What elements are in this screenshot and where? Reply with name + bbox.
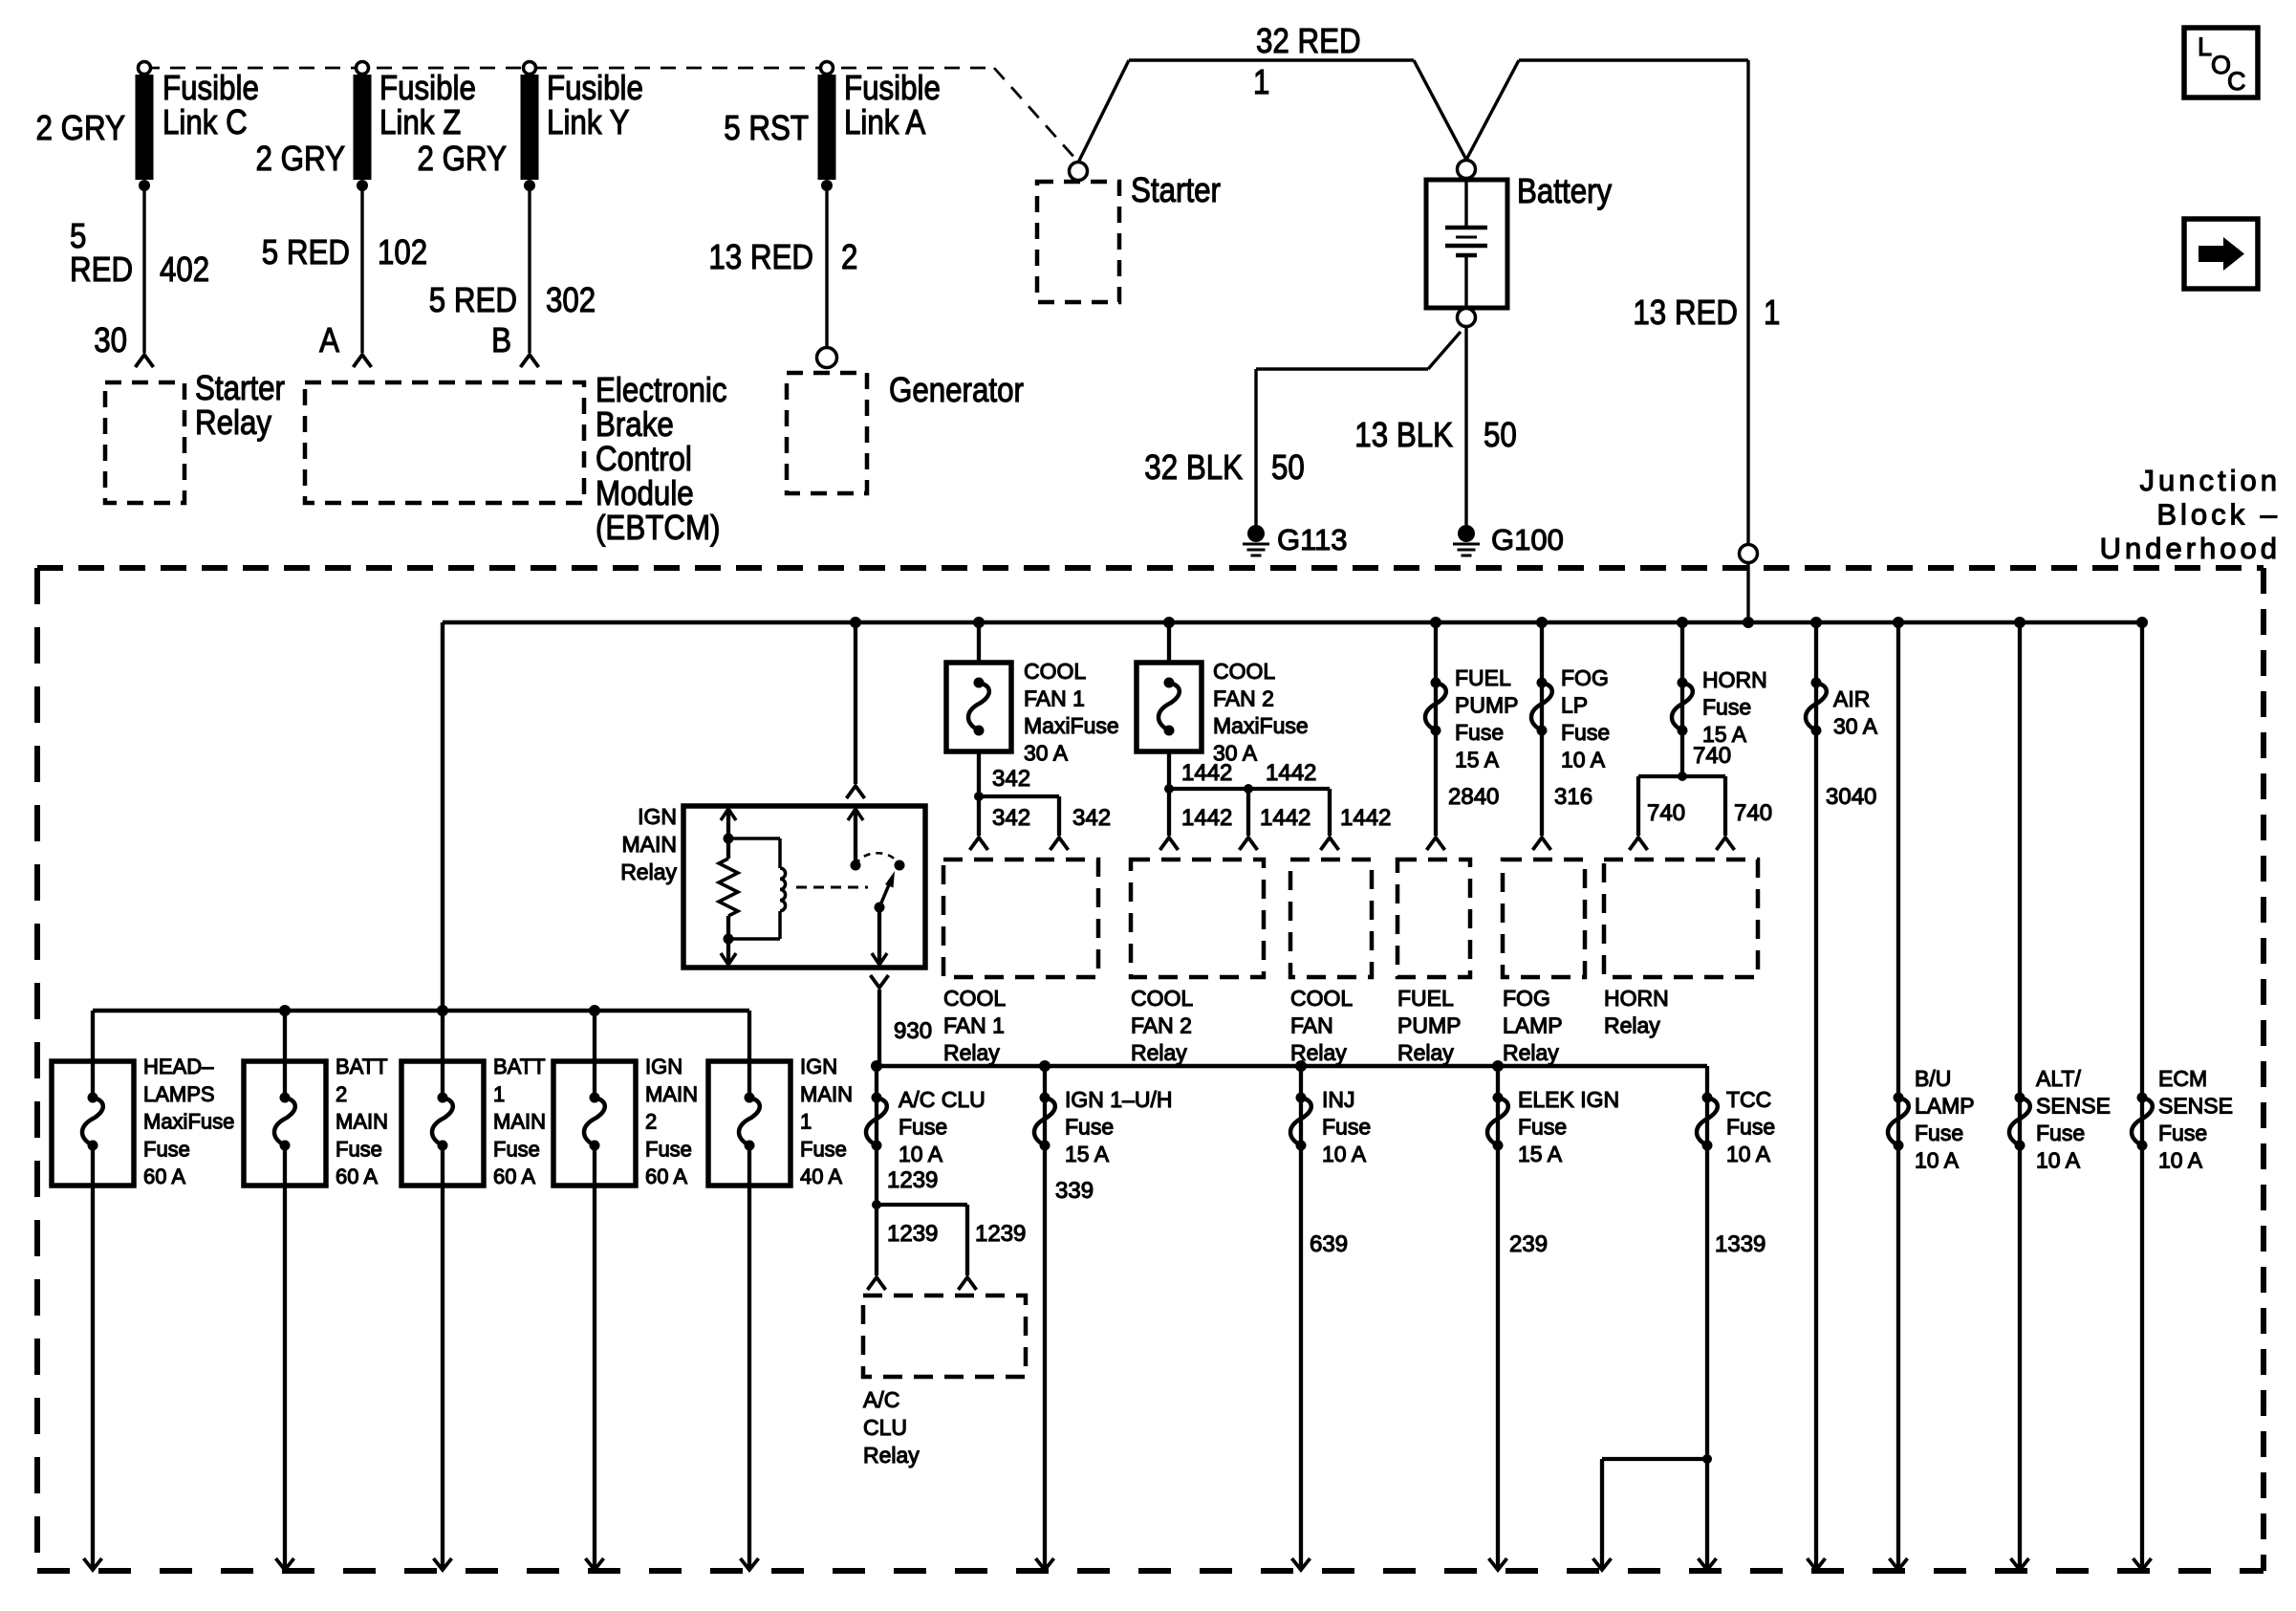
svg-text:SENSE: SENSE: [2036, 1094, 2111, 1119]
svg-text:Fuse: Fuse: [1561, 720, 1610, 745]
svg-text:Fuse: Fuse: [800, 1137, 847, 1161]
svg-text:Fuse: Fuse: [1065, 1115, 1114, 1140]
svg-text:2 GRY: 2 GRY: [36, 108, 126, 147]
svg-text:Fuse: Fuse: [336, 1137, 382, 1161]
svg-text:AIR: AIR: [1833, 686, 1870, 711]
svg-text:30: 30: [94, 320, 127, 359]
svg-text:Fusible: Fusible: [547, 68, 643, 107]
svg-text:MaxiFuse: MaxiFuse: [143, 1110, 234, 1134]
svg-text:10 A: 10 A: [1561, 748, 1606, 773]
svg-text:930: 930: [894, 1018, 932, 1044]
svg-text:Fusible: Fusible: [844, 68, 941, 107]
svg-text:Module: Module: [596, 473, 694, 512]
svg-text:HORN: HORN: [1702, 667, 1767, 692]
svg-text:LAMP: LAMP: [1915, 1094, 1975, 1119]
svg-text:MaxiFuse: MaxiFuse: [1213, 713, 1309, 738]
svg-text:Electronic: Electronic: [596, 370, 727, 409]
svg-text:FAN 1: FAN 1: [943, 1012, 1005, 1037]
svg-text:Generator: Generator: [889, 370, 1024, 409]
svg-text:10 A: 10 A: [2036, 1148, 2081, 1173]
svg-text:15 A: 15 A: [1065, 1142, 1110, 1166]
svg-text:B: B: [491, 320, 511, 359]
svg-text:HORN: HORN: [1604, 986, 1669, 1011]
svg-text:2: 2: [336, 1082, 347, 1106]
svg-text:10 A: 10 A: [1915, 1148, 1960, 1173]
svg-text:FAN 2: FAN 2: [1213, 686, 1274, 711]
svg-text:102: 102: [378, 232, 427, 272]
svg-text:MAIN: MAIN: [800, 1082, 853, 1106]
svg-text:13 RED: 13 RED: [708, 237, 813, 276]
svg-text:MAIN: MAIN: [493, 1110, 546, 1134]
svg-text:PUMP: PUMP: [1397, 1012, 1461, 1037]
svg-text:1239: 1239: [975, 1221, 1026, 1247]
svg-text:Fuse: Fuse: [143, 1137, 190, 1161]
svg-text:50: 50: [1271, 447, 1305, 487]
svg-text:342: 342: [1072, 805, 1111, 831]
svg-text:1: 1: [800, 1110, 812, 1134]
svg-text:MaxiFuse: MaxiFuse: [1024, 713, 1119, 738]
svg-text:342: 342: [992, 805, 1030, 831]
svg-text:60 A: 60 A: [645, 1165, 687, 1188]
svg-text:C: C: [2227, 67, 2246, 96]
svg-text:13 RED: 13 RED: [1633, 293, 1738, 332]
svg-text:A/C: A/C: [863, 1387, 899, 1412]
svg-text:10 A: 10 A: [1726, 1142, 1771, 1166]
svg-text:2 GRY: 2 GRY: [256, 139, 346, 178]
svg-text:PUMP: PUMP: [1455, 693, 1518, 718]
svg-text:L: L: [2198, 33, 2212, 61]
svg-text:Battery: Battery: [1517, 171, 1612, 210]
svg-text:2840: 2840: [1448, 784, 1499, 810]
svg-text:316: 316: [1554, 784, 1592, 810]
svg-text:FUEL: FUEL: [1455, 665, 1511, 690]
svg-text:Link Z: Link Z: [379, 102, 461, 142]
svg-text:LAMP: LAMP: [1503, 1012, 1563, 1037]
svg-text:1239: 1239: [887, 1221, 938, 1247]
svg-text:Fuse: Fuse: [2158, 1121, 2207, 1145]
svg-text:740: 740: [1734, 800, 1772, 826]
svg-text:IGN 1–U/H: IGN 1–U/H: [1065, 1087, 1172, 1112]
svg-text:1339: 1339: [1715, 1231, 1765, 1257]
svg-text:1442: 1442: [1181, 760, 1232, 786]
svg-text:TCC: TCC: [1726, 1087, 1771, 1112]
svg-text:5 RED: 5 RED: [262, 232, 350, 272]
svg-text:10 A: 10 A: [899, 1142, 943, 1166]
svg-text:15 A: 15 A: [1455, 748, 1500, 773]
svg-text:239: 239: [1509, 1231, 1548, 1257]
svg-text:COOL: COOL: [1024, 659, 1086, 684]
svg-text:COOL: COOL: [1131, 986, 1193, 1011]
svg-text:30 A: 30 A: [1024, 741, 1069, 766]
svg-text:5 RST: 5 RST: [724, 108, 809, 147]
svg-text:SENSE: SENSE: [2158, 1094, 2233, 1119]
svg-text:1442: 1442: [1266, 760, 1316, 786]
svg-text:Relay: Relay: [620, 860, 677, 884]
svg-text:Link A: Link A: [844, 102, 925, 142]
svg-text:302: 302: [546, 280, 596, 319]
svg-text:Relay: Relay: [195, 403, 271, 442]
svg-text:FAN: FAN: [1290, 1012, 1333, 1037]
svg-text:BATT: BATT: [336, 1055, 388, 1078]
svg-text:LAMPS: LAMPS: [143, 1082, 215, 1106]
svg-text:1442: 1442: [1260, 805, 1310, 831]
svg-text:5 RED: 5 RED: [429, 280, 517, 319]
svg-text:1239: 1239: [887, 1167, 938, 1193]
svg-text:FAN 1: FAN 1: [1024, 686, 1085, 711]
svg-text:Starter: Starter: [1131, 170, 1221, 209]
svg-text:10 A: 10 A: [2158, 1148, 2203, 1173]
svg-text:Link Y: Link Y: [547, 102, 630, 142]
svg-text:IGN: IGN: [800, 1055, 837, 1078]
svg-text:INJ: INJ: [1322, 1087, 1355, 1112]
svg-text:Fuse: Fuse: [1726, 1115, 1775, 1140]
svg-text:50: 50: [1484, 415, 1517, 454]
svg-text:1442: 1442: [1340, 805, 1391, 831]
svg-text:Control: Control: [596, 439, 692, 478]
svg-text:IGN: IGN: [638, 804, 677, 829]
svg-text:32 BLK: 32 BLK: [1144, 447, 1243, 487]
svg-text:60 A: 60 A: [336, 1165, 378, 1188]
svg-text:Fuse: Fuse: [899, 1115, 947, 1140]
svg-text:342: 342: [992, 766, 1030, 792]
svg-text:Underhood: Underhood: [2100, 532, 2281, 565]
svg-text:Fuse: Fuse: [2036, 1121, 2085, 1145]
svg-text:740: 740: [1693, 743, 1731, 769]
svg-text:RED: RED: [70, 250, 133, 289]
svg-text:IGN: IGN: [645, 1055, 682, 1078]
svg-text:60 A: 60 A: [143, 1165, 185, 1188]
svg-text:FOG: FOG: [1503, 986, 1550, 1011]
svg-text:Fuse: Fuse: [1455, 720, 1504, 745]
svg-text:2 GRY: 2 GRY: [418, 139, 508, 178]
svg-text:Relay: Relay: [1503, 1040, 1559, 1065]
svg-text:Block –: Block –: [2156, 498, 2281, 532]
svg-text:MAIN: MAIN: [645, 1082, 698, 1106]
svg-text:Relay: Relay: [863, 1443, 920, 1468]
svg-text:A: A: [319, 320, 339, 359]
svg-text:2: 2: [645, 1110, 657, 1134]
svg-text:MAIN: MAIN: [622, 832, 678, 857]
svg-text:1442: 1442: [1181, 805, 1232, 831]
svg-text:ECM: ECM: [2158, 1066, 2207, 1091]
svg-text:COOL: COOL: [1213, 659, 1275, 684]
svg-text:HEAD–: HEAD–: [143, 1055, 214, 1078]
svg-text:MAIN: MAIN: [336, 1110, 388, 1134]
svg-text:339: 339: [1055, 1178, 1094, 1204]
svg-text:FOG: FOG: [1561, 665, 1609, 690]
svg-text:Relay: Relay: [1604, 1012, 1660, 1037]
svg-text:13 BLK: 13 BLK: [1354, 415, 1453, 454]
svg-text:1: 1: [493, 1082, 505, 1106]
svg-text:Link C: Link C: [162, 102, 248, 142]
svg-text:1: 1: [1253, 62, 1269, 101]
svg-text:LP: LP: [1561, 693, 1588, 718]
svg-text:Fuse: Fuse: [645, 1137, 692, 1161]
svg-text:Fuse: Fuse: [1518, 1115, 1567, 1140]
svg-text:15 A: 15 A: [1518, 1142, 1563, 1166]
svg-text:Fusible: Fusible: [162, 68, 259, 107]
svg-text:30 A: 30 A: [1833, 714, 1878, 739]
svg-text:ALT/: ALT/: [2036, 1066, 2081, 1091]
svg-text:1: 1: [1764, 293, 1780, 332]
svg-text:Fuse: Fuse: [1702, 695, 1751, 720]
svg-text:COOL: COOL: [943, 986, 1006, 1011]
svg-text:A/C CLU: A/C CLU: [899, 1087, 986, 1112]
svg-text:Starter: Starter: [195, 368, 285, 407]
svg-text:402: 402: [160, 250, 209, 289]
svg-text:Fuse: Fuse: [1322, 1115, 1371, 1140]
svg-text:CLU: CLU: [863, 1415, 907, 1440]
svg-text:Relay: Relay: [1397, 1040, 1454, 1065]
svg-text:32 RED: 32 RED: [1256, 21, 1361, 60]
svg-text:740: 740: [1647, 800, 1685, 826]
svg-text:FAN 2: FAN 2: [1131, 1012, 1192, 1037]
svg-text:60 A: 60 A: [493, 1165, 535, 1188]
svg-text:Fuse: Fuse: [1915, 1121, 1963, 1145]
svg-text:FUEL: FUEL: [1397, 986, 1454, 1011]
svg-text:Fusible: Fusible: [379, 68, 476, 107]
svg-text:2: 2: [841, 237, 857, 276]
svg-text:10 A: 10 A: [1322, 1142, 1367, 1166]
svg-text:(EBTCM): (EBTCM): [596, 508, 721, 547]
svg-text:G113: G113: [1277, 523, 1348, 556]
svg-text:G100: G100: [1491, 523, 1564, 556]
svg-text:3040: 3040: [1826, 784, 1876, 810]
svg-text:COOL: COOL: [1290, 986, 1353, 1011]
svg-text:Brake: Brake: [596, 404, 674, 444]
svg-text:ELEK IGN: ELEK IGN: [1518, 1087, 1619, 1112]
svg-text:639: 639: [1310, 1231, 1348, 1257]
svg-text:40 A: 40 A: [800, 1165, 842, 1188]
svg-text:BATT: BATT: [493, 1055, 546, 1078]
svg-text:Junction: Junction: [2140, 464, 2281, 497]
svg-text:B/U: B/U: [1915, 1066, 1951, 1091]
svg-text:Fuse: Fuse: [493, 1137, 540, 1161]
svg-text:Relay: Relay: [1131, 1040, 1187, 1065]
svg-text:Relay: Relay: [943, 1040, 1000, 1065]
